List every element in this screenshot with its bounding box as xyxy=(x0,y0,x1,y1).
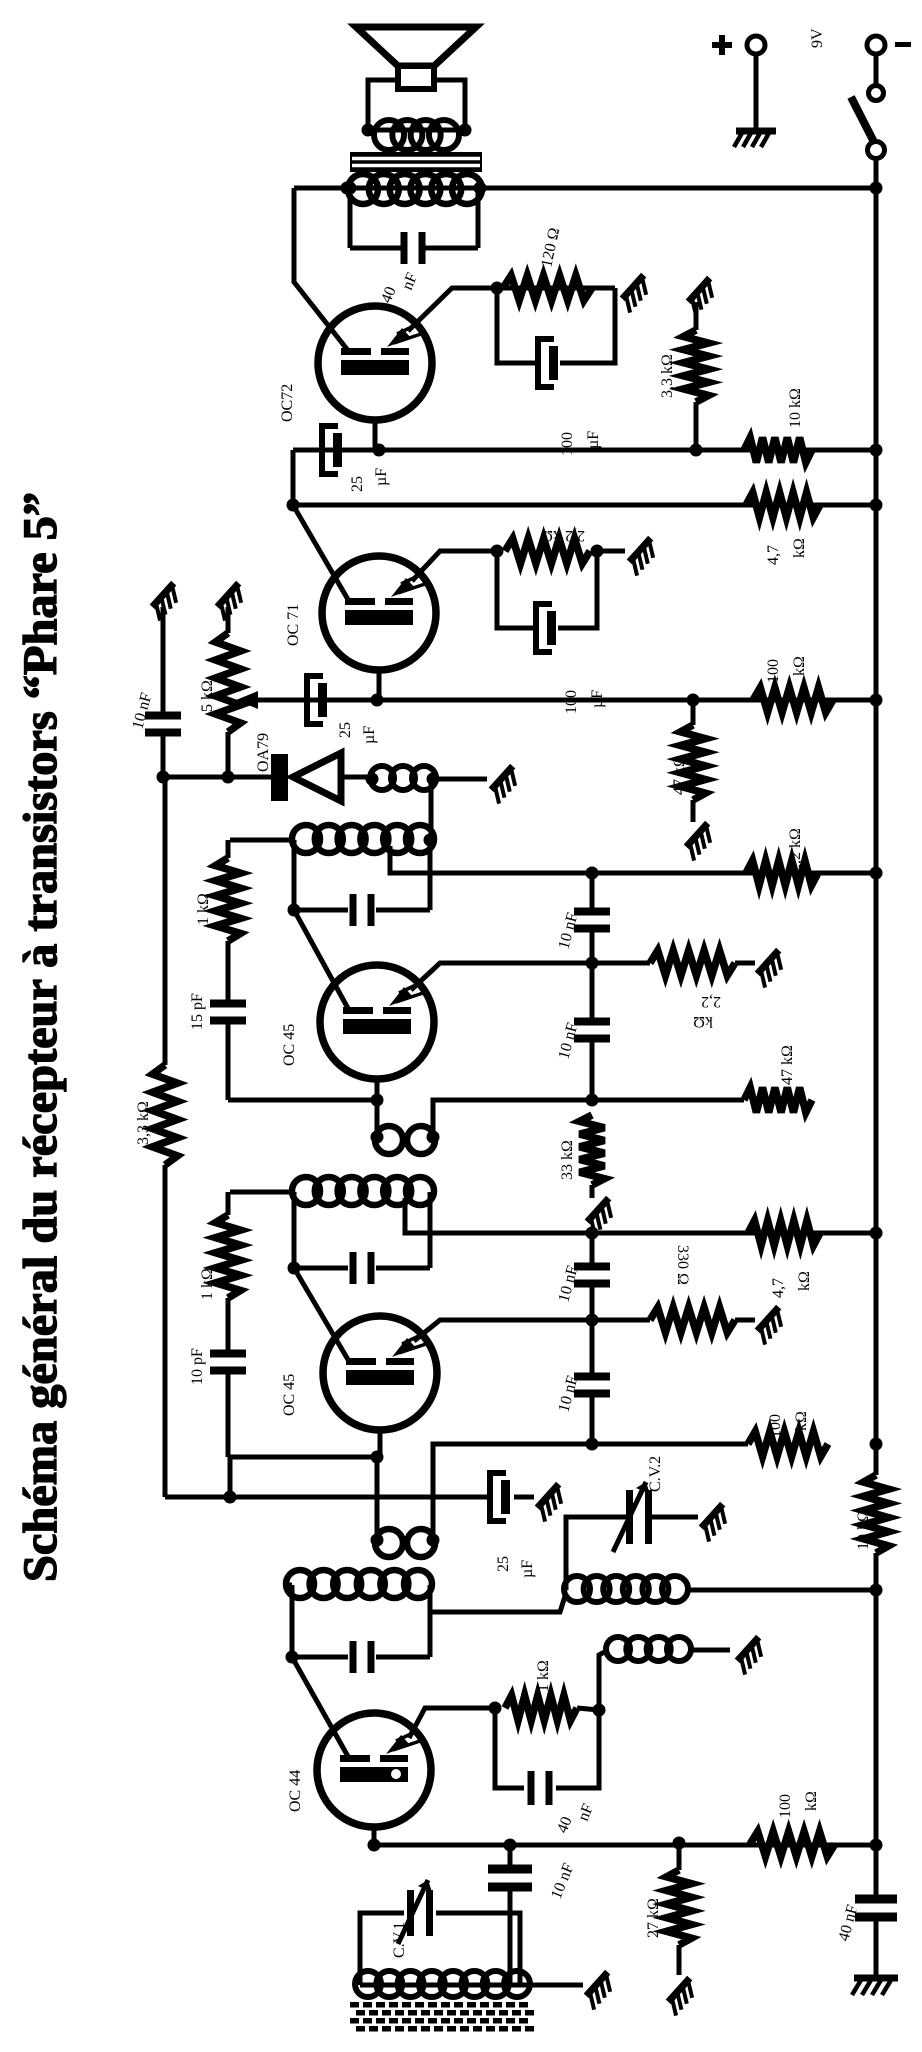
svg-text:25: 25 xyxy=(337,722,354,738)
svg-text:OC 44: OC 44 xyxy=(287,1770,304,1812)
svg-text:C.V.1: C.V.1 xyxy=(391,1922,408,1958)
svg-text:330 Ω: 330 Ω xyxy=(674,1245,691,1285)
svg-text:100: 100 xyxy=(777,1794,794,1818)
svg-text:2,2: 2,2 xyxy=(701,993,721,1010)
svg-text:2,2 kΩ: 2,2 kΩ xyxy=(541,527,585,544)
svg-text:µF: µF xyxy=(373,468,390,486)
svg-text:kΩ: kΩ xyxy=(693,1013,713,1030)
svg-text:15 pF: 15 pF xyxy=(189,993,206,1030)
svg-text:OC72: OC72 xyxy=(279,384,296,422)
svg-text:µF: µF xyxy=(585,431,602,449)
svg-text:3,3 kΩ: 3,3 kΩ xyxy=(659,354,676,398)
svg-text:100: 100 xyxy=(765,659,782,683)
svg-text:kΩ: kΩ xyxy=(791,538,808,558)
svg-text:3,3 kΩ: 3,3 kΩ xyxy=(135,1101,152,1145)
svg-text:5 kΩ: 5 kΩ xyxy=(199,680,216,712)
svg-text:1 kΩ: 1 kΩ xyxy=(195,893,212,925)
svg-text:10 kΩ: 10 kΩ xyxy=(855,1510,872,1550)
svg-text:10 kΩ: 10 kΩ xyxy=(787,388,804,428)
svg-text:µF: µF xyxy=(361,726,378,744)
svg-text:OC 71: OC 71 xyxy=(285,604,302,646)
svg-text:kΩ: kΩ xyxy=(796,1271,813,1291)
svg-text:C.V.2: C.V.2 xyxy=(647,1456,664,1492)
svg-text:4,7: 4,7 xyxy=(765,545,782,565)
svg-text:µF: µF xyxy=(519,1560,536,1578)
svg-text:47 kΩ: 47 kΩ xyxy=(779,1045,796,1085)
svg-text:25: 25 xyxy=(495,1556,512,1572)
svg-text:OC 45: OC 45 xyxy=(281,1374,298,1416)
svg-text:25: 25 xyxy=(349,476,366,492)
svg-text:Schéma général du récepteur à: Schéma général du récepteur à transistor… xyxy=(14,492,67,1582)
svg-text:kΩ: kΩ xyxy=(803,1791,820,1811)
svg-text:OC 45: OC 45 xyxy=(281,1024,298,1066)
svg-text:4,7: 4,7 xyxy=(770,1278,787,1298)
svg-text:1 kΩ: 1 kΩ xyxy=(199,1268,216,1300)
svg-text:100: 100 xyxy=(767,1414,784,1438)
svg-text:2,2 kΩ: 2,2 kΩ xyxy=(787,828,804,872)
svg-text:27 kΩ: 27 kΩ xyxy=(645,1898,662,1938)
svg-text:47 kΩ: 47 kΩ xyxy=(671,755,688,795)
svg-text:33 kΩ: 33 kΩ xyxy=(559,1140,576,1180)
svg-text:OA79: OA79 xyxy=(255,733,272,772)
svg-text:1 kΩ: 1 kΩ xyxy=(535,1660,552,1692)
svg-text:kΩ: kΩ xyxy=(793,1411,810,1431)
svg-text:9V: 9V xyxy=(809,28,826,48)
svg-text:10 pF: 10 pF xyxy=(189,1348,206,1385)
svg-text:kΩ: kΩ xyxy=(791,656,808,676)
